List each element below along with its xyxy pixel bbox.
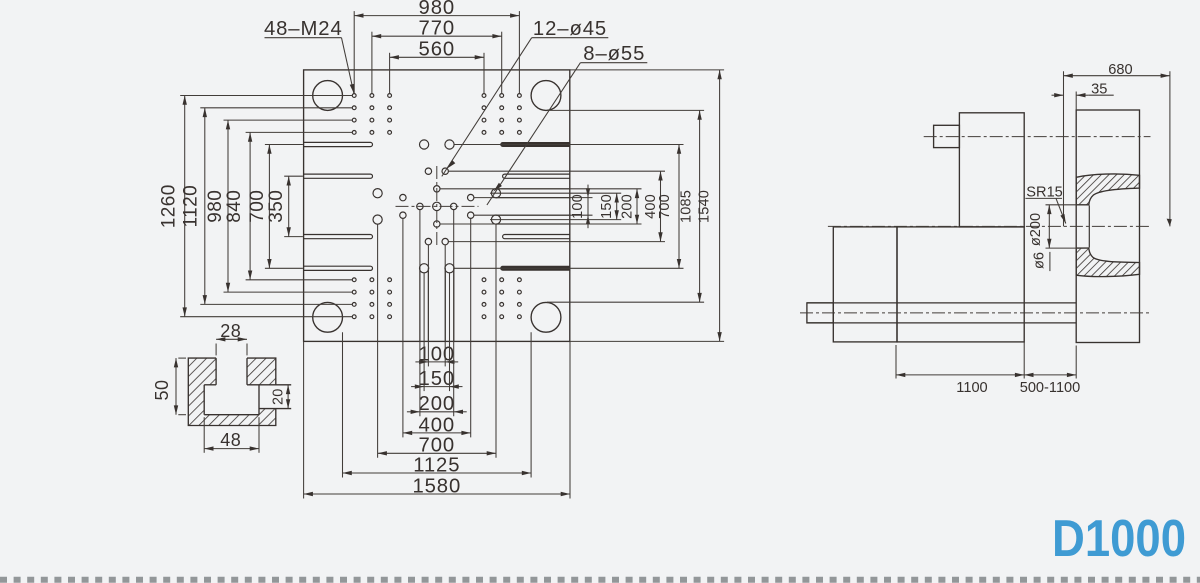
svg-text:700: 700 — [657, 194, 673, 219]
svg-text:560: 560 — [419, 39, 456, 61]
svg-text:680: 680 — [1108, 62, 1132, 78]
svg-text:28: 28 — [220, 321, 241, 341]
svg-text:770: 770 — [419, 18, 456, 40]
svg-text:12–ø45: 12–ø45 — [533, 18, 607, 40]
svg-text:48–M24: 48–M24 — [264, 18, 343, 40]
svg-text:1580: 1580 — [412, 475, 461, 497]
svg-text:20: 20 — [270, 388, 286, 405]
svg-text:D1000: D1000 — [1052, 510, 1186, 568]
svg-text:200: 200 — [619, 194, 635, 219]
svg-text:150: 150 — [599, 194, 615, 219]
svg-text:200: 200 — [419, 393, 456, 415]
svg-text:400: 400 — [419, 414, 456, 436]
svg-text:1100: 1100 — [956, 380, 987, 396]
svg-text:700: 700 — [419, 435, 456, 457]
svg-text:48: 48 — [220, 430, 241, 450]
svg-text:840: 840 — [224, 190, 245, 223]
svg-text:8–ø55: 8–ø55 — [583, 43, 645, 65]
svg-text:35: 35 — [1091, 81, 1107, 97]
svg-text:50: 50 — [152, 380, 172, 401]
svg-text:ø200: ø200 — [1028, 213, 1044, 246]
svg-text:980: 980 — [205, 190, 226, 223]
svg-text:980: 980 — [419, 0, 456, 19]
svg-text:ø6: ø6 — [1031, 252, 1047, 269]
svg-text:1125: 1125 — [413, 454, 460, 476]
svg-text:1085: 1085 — [678, 190, 694, 223]
svg-text:500-1100: 500-1100 — [1020, 380, 1081, 396]
svg-text:350: 350 — [266, 190, 287, 223]
svg-text:1260: 1260 — [159, 184, 180, 228]
svg-text:1120: 1120 — [180, 185, 201, 228]
svg-text:700: 700 — [247, 190, 268, 223]
svg-text:1540: 1540 — [696, 190, 712, 223]
